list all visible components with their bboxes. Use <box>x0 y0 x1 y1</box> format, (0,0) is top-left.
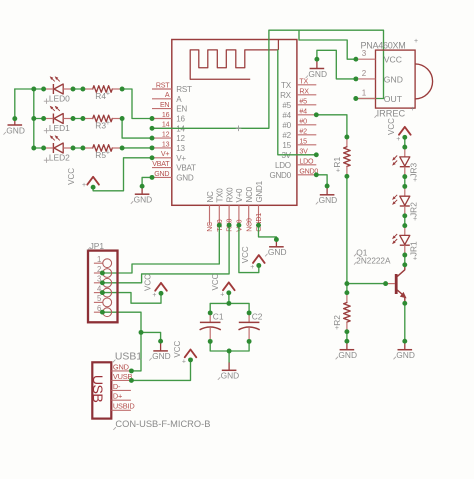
svg-text:NC0: NC0 <box>245 186 254 202</box>
svg-text:#2: #2 <box>299 127 307 135</box>
svg-text:14: 14 <box>162 121 170 129</box>
svg-text:13: 13 <box>162 140 170 148</box>
svg-text:VCC: VCC <box>143 274 152 291</box>
svg-text:12: 12 <box>162 131 170 139</box>
svg-text:+: + <box>106 120 110 127</box>
svg-text:GND: GND <box>268 247 287 257</box>
svg-text:LED2: LED2 <box>49 153 70 163</box>
svg-text:#2: #2 <box>282 131 291 140</box>
svg-text:NC: NC <box>206 222 214 232</box>
svg-text:+: + <box>106 91 110 98</box>
svg-text:15: 15 <box>282 141 291 150</box>
svg-text:JR2: JR2 <box>409 202 419 217</box>
svg-text:RST: RST <box>176 85 192 94</box>
svg-text:R5: R5 <box>95 150 106 160</box>
svg-text:GND: GND <box>384 74 403 84</box>
svg-text:TX: TX <box>299 77 308 85</box>
svg-text:16: 16 <box>176 115 185 124</box>
svg-text:+: + <box>335 325 339 332</box>
svg-text:V+0: V+0 <box>235 188 244 203</box>
svg-text:USB: USB <box>89 375 105 403</box>
svg-text:LDO: LDO <box>275 161 291 170</box>
svg-text:VCC: VCC <box>384 55 402 65</box>
svg-text:LED0: LED0 <box>49 94 70 104</box>
svg-text:VBAT: VBAT <box>152 160 170 168</box>
svg-text:JP1: JP1 <box>90 241 105 251</box>
svg-text:C2: C2 <box>252 311 263 321</box>
svg-text:GND: GND <box>6 125 25 135</box>
svg-text:5: 5 <box>97 294 102 303</box>
svg-text:R4: R4 <box>95 91 106 101</box>
svg-text:TX: TX <box>281 81 292 90</box>
svg-text:NC0: NC0 <box>245 218 253 232</box>
svg-text:GND: GND <box>113 362 129 371</box>
svg-text:#5: #5 <box>299 97 307 105</box>
svg-text:GND: GND <box>319 195 338 205</box>
svg-text:EN: EN <box>160 101 169 109</box>
svg-text:D+: D+ <box>113 392 122 401</box>
svg-text:VCC: VCC <box>241 246 250 263</box>
svg-text:2: 2 <box>362 69 367 78</box>
svg-text:GND: GND <box>154 170 169 178</box>
svg-text:USBID: USBID <box>113 402 135 411</box>
svg-text:12: 12 <box>176 134 185 143</box>
svg-text:#4: #4 <box>299 107 307 115</box>
svg-text:GND1: GND1 <box>255 180 264 202</box>
svg-text:OUT: OUT <box>384 94 403 104</box>
svg-text:GND: GND <box>176 174 194 183</box>
svg-text:A: A <box>165 91 170 99</box>
svg-text:NC: NC <box>206 191 215 203</box>
svg-text:#4: #4 <box>282 111 291 120</box>
svg-text:3: 3 <box>362 49 367 58</box>
svg-text:#0: #0 <box>282 121 291 130</box>
svg-text:D-: D- <box>113 382 121 391</box>
svg-text:EN: EN <box>176 105 187 114</box>
svg-text:R1: R1 <box>332 157 342 168</box>
svg-text:VCC: VCC <box>211 273 220 290</box>
svg-text:16: 16 <box>162 111 170 119</box>
svg-text:1: 1 <box>362 89 367 98</box>
svg-text:GND: GND <box>396 350 415 360</box>
svg-text:IRREC: IRREC <box>377 109 406 119</box>
svg-text:PNA460XM: PNA460XM <box>361 40 406 50</box>
svg-text:15: 15 <box>299 137 307 145</box>
svg-text:LED1: LED1 <box>49 123 70 133</box>
svg-text:JR1: JR1 <box>409 241 419 256</box>
svg-text:+: + <box>396 136 400 143</box>
svg-text:V+: V+ <box>161 150 169 158</box>
svg-text:2N2222A: 2N2222A <box>356 257 391 266</box>
svg-text:+: + <box>413 255 417 262</box>
svg-text:TX0: TX0 <box>216 188 225 203</box>
svg-text:+: + <box>106 150 110 157</box>
svg-text:+: + <box>411 106 415 113</box>
svg-text:RX0: RX0 <box>225 187 234 203</box>
svg-text:VCC: VCC <box>173 340 182 357</box>
svg-text:#5: #5 <box>282 101 291 110</box>
svg-text:GND: GND <box>308 69 327 79</box>
svg-text:+: + <box>413 216 417 223</box>
svg-text:CON-USB-F-MICRO-B: CON-USB-F-MICRO-B <box>115 419 210 429</box>
svg-text:+: + <box>414 38 418 45</box>
svg-text:RX: RX <box>280 91 292 100</box>
svg-text:VCC: VCC <box>67 168 76 185</box>
svg-text:RST: RST <box>156 81 170 89</box>
svg-text:GND: GND <box>338 350 357 360</box>
svg-text:V+: V+ <box>176 154 186 163</box>
svg-text:GND: GND <box>221 371 240 381</box>
svg-text:+: + <box>336 168 340 175</box>
svg-text:+: + <box>152 292 156 299</box>
svg-text:GND: GND <box>134 195 153 205</box>
svg-text:+: + <box>182 359 186 366</box>
svg-text:1: 1 <box>97 255 101 264</box>
svg-text:+: + <box>82 182 86 189</box>
svg-text:RX: RX <box>299 87 309 95</box>
svg-text:+: + <box>220 291 224 298</box>
svg-text:USB1: USB1 <box>115 352 142 363</box>
svg-text:13: 13 <box>176 144 185 153</box>
svg-text:VCC: VCC <box>387 118 396 135</box>
svg-text:C1: C1 <box>213 311 224 321</box>
svg-text:#0: #0 <box>299 117 307 125</box>
svg-text:GND: GND <box>152 351 171 361</box>
svg-text:+: + <box>413 177 417 184</box>
svg-text:LDO: LDO <box>299 157 314 165</box>
svg-text:GND0: GND0 <box>270 171 292 180</box>
svg-text:R3: R3 <box>95 121 106 131</box>
svg-text:JR3: JR3 <box>409 162 419 177</box>
svg-text:+: + <box>250 264 254 271</box>
svg-text:VBAT: VBAT <box>176 164 196 173</box>
svg-text:A: A <box>176 95 182 104</box>
